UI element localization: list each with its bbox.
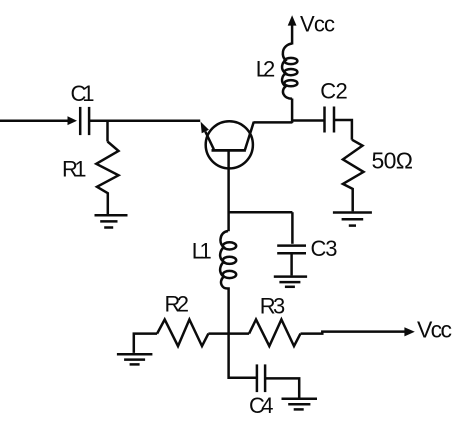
svg-text:50Ω: 50Ω <box>372 147 414 173</box>
ground C4 <box>282 398 318 401</box>
svg-text:Vcc: Vcc <box>300 12 335 37</box>
capacitor C3 plates <box>277 244 306 247</box>
ground R2 <box>117 353 152 356</box>
transistor Q1 emitter line <box>205 132 214 150</box>
inductor L1 loop 3 <box>223 271 236 278</box>
ground 50ohm <box>333 211 372 214</box>
capacitor C1 plates <box>79 107 82 135</box>
resistor R2 <box>157 320 208 347</box>
wire R2 to junction <box>208 332 249 335</box>
wire C4 to ground <box>265 378 299 397</box>
wire C2 to 50 ohm <box>334 120 352 140</box>
inductor L2 loop 2 <box>284 69 297 75</box>
wire C3 to ground <box>290 253 293 275</box>
ground R1 <box>95 214 128 217</box>
wire R3 to Vcc <box>301 332 405 334</box>
svg-text:L2: L2 <box>256 57 275 82</box>
resistor 50ohm <box>343 140 364 212</box>
wire input line <box>0 119 69 122</box>
capacitor C4 plates <box>256 364 259 392</box>
inductor L1 spine <box>220 231 228 289</box>
wire C1 to transistor <box>89 119 200 122</box>
resistor R1 <box>96 142 118 215</box>
transistor Q1 emitter arrowhead <box>201 122 209 134</box>
svg-text:C3: C3 <box>311 236 338 261</box>
wire junction to R1 <box>106 121 109 142</box>
svg-text:R3: R3 <box>260 293 286 318</box>
inductor L2 loop 1 <box>284 58 297 64</box>
Vcc arrowhead right <box>404 327 414 336</box>
wire R2 ground arm <box>134 334 157 353</box>
resistor R3 <box>249 320 300 347</box>
svg-text:C1: C1 <box>71 81 95 106</box>
input arrowhead <box>68 116 78 125</box>
svg-text:Vcc: Vcc <box>417 316 452 342</box>
wire L2 node vertical <box>291 99 294 123</box>
svg-text:R2: R2 <box>165 291 190 316</box>
wire collector to L2 node <box>254 121 293 124</box>
Vcc arrowhead top <box>288 15 297 25</box>
inductor L2 loop 3 <box>284 80 297 86</box>
transistor Q1 circle <box>206 121 253 168</box>
svg-text:C2: C2 <box>320 79 348 104</box>
wire L1 to R2 R3 junction to C4 <box>228 289 257 378</box>
transistor Q1 base bar <box>212 149 246 152</box>
capacitor C2 plates <box>323 107 326 133</box>
inductor L1 loop 2 <box>223 257 236 264</box>
inductor L2 spine <box>282 44 292 99</box>
svg-text:R1: R1 <box>62 156 87 181</box>
Vcc arrow top line <box>291 25 294 45</box>
wire node to C3 <box>291 212 294 244</box>
svg-text:L1: L1 <box>192 239 212 264</box>
transistor Q1 collector line <box>245 122 254 150</box>
svg-text:C4: C4 <box>249 393 274 418</box>
inductor L1 loop 1 <box>223 242 236 249</box>
wire base node horizontal <box>229 211 293 214</box>
transistor Q1 base lead down <box>227 150 230 231</box>
wire L2 node to C2 <box>292 119 324 122</box>
ground C3 <box>274 275 307 278</box>
